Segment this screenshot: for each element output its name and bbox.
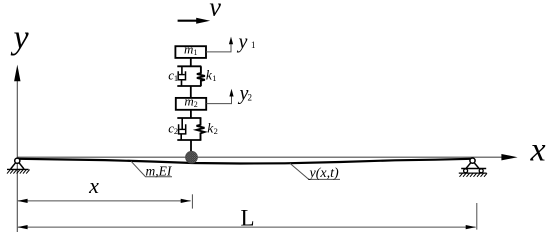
mass m1 xyxy=(175,46,206,58)
y-axis xyxy=(16,80,18,232)
beam m,EI (deflected shape) xyxy=(19,159,472,164)
svg-text:x: x xyxy=(529,131,545,168)
roller support (right) xyxy=(459,158,487,177)
y1 datum arrow xyxy=(206,44,231,52)
svg-text:L: L xyxy=(240,206,254,231)
svg-text:2: 2 xyxy=(214,126,218,136)
wire: m1 to suspension top bar 1 xyxy=(190,58,192,66)
mass m2 xyxy=(176,98,206,110)
svg-text:y: y xyxy=(237,31,248,53)
dimension line x xyxy=(18,200,191,202)
contact wheel xyxy=(186,151,198,163)
suspension 2 bottom bar xyxy=(177,139,201,141)
svg-text:x: x xyxy=(88,173,99,198)
dimension L extension line xyxy=(476,203,478,230)
svg-text:m: m xyxy=(184,42,193,57)
svg-text:m,EI: m,EI xyxy=(146,163,173,178)
label y(x,t) with leader xyxy=(290,163,340,179)
y2 datum arrow xyxy=(206,96,231,104)
velocity arrow xyxy=(178,20,198,22)
damper c2 xyxy=(179,118,186,140)
suspension 1 top bar xyxy=(177,65,201,67)
damper c1 xyxy=(178,66,185,86)
svg-text:2: 2 xyxy=(194,100,198,109)
svg-text:m: m xyxy=(184,94,193,109)
spring k1 xyxy=(197,66,205,86)
svg-text:1: 1 xyxy=(251,40,256,50)
dimension line L xyxy=(18,226,476,228)
x-axis xyxy=(17,156,503,158)
svg-text:1: 1 xyxy=(194,48,198,57)
suspension 1 bottom bar xyxy=(177,85,201,87)
svg-text:v: v xyxy=(209,0,221,22)
svg-text:2: 2 xyxy=(174,126,178,136)
svg-text:1: 1 xyxy=(212,73,216,83)
wire: suspension 1 to m2 xyxy=(190,86,192,98)
pin support (left) xyxy=(7,158,30,174)
wire: m2 to suspension top bar 2 xyxy=(190,110,192,118)
suspension 2 top bar xyxy=(177,117,201,119)
wire: suspension 2 to contact wheel xyxy=(190,140,192,152)
svg-text:y: y xyxy=(10,20,29,57)
x-axis arrowhead xyxy=(501,154,517,160)
dimension x extension line xyxy=(191,194,193,208)
label m,EI with leader xyxy=(131,161,172,177)
spring k2 xyxy=(197,118,205,140)
svg-text:2: 2 xyxy=(248,93,253,103)
y-axis arrowhead xyxy=(14,65,20,82)
svg-text:y(x,t): y(x,t) xyxy=(308,166,339,181)
svg-text:1: 1 xyxy=(174,73,178,83)
